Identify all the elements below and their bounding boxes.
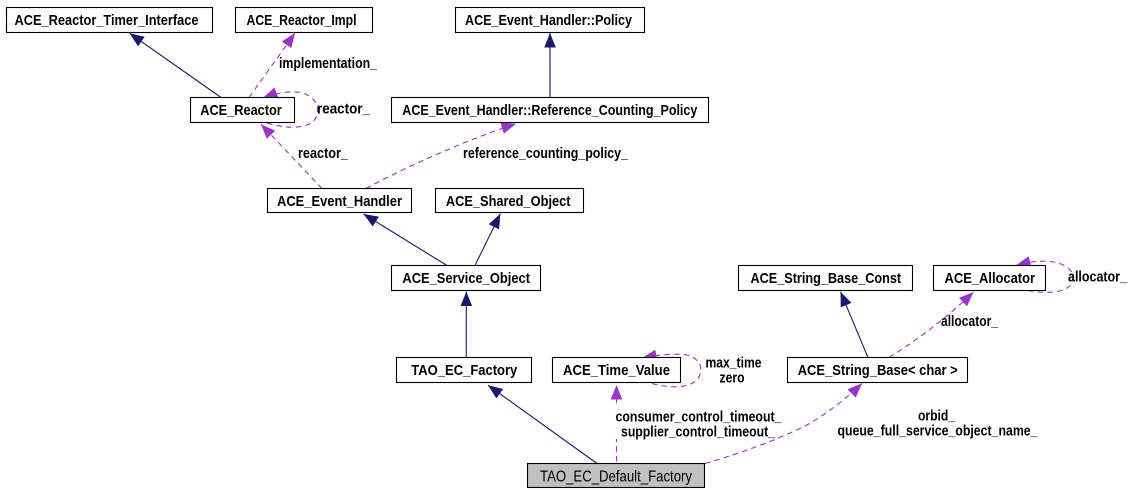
svg-text:ACE_Event_Handler::Reference_C: ACE_Event_Handler::Reference_Counting_Po… xyxy=(402,102,698,119)
node ACE_Event_Handler::Reference_Counting_Policy xyxy=(392,98,709,123)
wire: usage TAO_EC_Default_Factory -> ACE_Time_Value lower part xyxy=(616,439,618,462)
node ACE_Time_Value xyxy=(553,358,681,383)
wire: inheritance ACE_Event_Handler::Reference_Counting_Policy -> ACE_Event_Handler::Policy xyxy=(549,33,551,98)
wire: usage ACE_String_Base&lt;char&gt; -> ACE_Allocator (allocator_) xyxy=(889,292,974,358)
wire: self loop ACE_Reactor (reactor_) xyxy=(263,92,318,127)
node ACE_Reactor xyxy=(191,98,295,123)
node ACE_String_Base_Const xyxy=(739,266,913,291)
svg-text:ACE_Reactor_Timer_Interface: ACE_Reactor_Timer_Interface xyxy=(15,12,199,29)
wire: inheritance TAO_EC_Default_Factory -> TAO_EC_Factory xyxy=(488,385,597,463)
svg-text:supplier_control_timeout_: supplier_control_timeout_ xyxy=(621,424,776,441)
svg-text:zero: zero xyxy=(720,370,745,387)
node ACE_String_Base&lt; char &gt; xyxy=(788,358,968,383)
node ACE_Reactor_Timer_Interface xyxy=(7,8,213,33)
wire: inheritance ACE_Service_Object -> ACE_Shared_Object xyxy=(475,214,500,266)
wire: usage ACE_Reactor -> ACE_Reactor_Impl (implementation_) xyxy=(249,33,295,98)
svg-text:ACE_String_Base_Const: ACE_String_Base_Const xyxy=(750,270,901,287)
svg-text:TAO_EC_Factory: TAO_EC_Factory xyxy=(411,362,518,379)
svg-text:ACE_String_Base< char >: ACE_String_Base< char > xyxy=(798,362,958,379)
svg-text:ACE_Event_Handler::Policy: ACE_Event_Handler::Policy xyxy=(465,12,633,29)
wire: inheritance TAO_EC_Factory -> ACE_Service_Object xyxy=(465,292,467,358)
svg-text:reactor_: reactor_ xyxy=(317,101,371,118)
svg-text:ACE_Allocator: ACE_Allocator xyxy=(945,270,1036,287)
svg-text:ACE_Service_Object: ACE_Service_Object xyxy=(402,270,530,287)
svg-text:allocator_: allocator_ xyxy=(1068,269,1128,286)
svg-text:ACE_Time_Value: ACE_Time_Value xyxy=(563,362,670,379)
wire: inheritance ACE_String_Base&lt;char&gt; -> ACE_String_Base_Const xyxy=(841,292,869,358)
svg-text:reference_counting_policy_: reference_counting_policy_ xyxy=(463,145,629,162)
svg-text:TAO_EC_Default_Factory: TAO_EC_Default_Factory xyxy=(540,469,692,486)
svg-text:ACE_Event_Handler: ACE_Event_Handler xyxy=(277,193,402,210)
node ACE_Shared_Object xyxy=(436,189,584,213)
svg-text:implementation_: implementation_ xyxy=(279,55,378,72)
wire: usage TAO_EC_Default_Factory -> ACE_Time_Value (consumer/supplier timeouts) upper part xyxy=(616,385,618,403)
svg-text:allocator_: allocator_ xyxy=(941,313,999,330)
wire: usage ACE_Event_Handler -> ACE_Reactor (reactor_) xyxy=(261,124,322,188)
wire: inheritance ACE_Reactor -> ACE_Reactor_Timer_Interface xyxy=(130,33,222,97)
node ACE_Event_Handler xyxy=(268,189,412,213)
svg-text:queue_full_service_object_name: queue_full_service_object_name_ xyxy=(838,423,1039,440)
svg-text:ACE_Reactor_Impl: ACE_Reactor_Impl xyxy=(247,12,357,29)
node ACE_Allocator xyxy=(934,266,1046,291)
wire: usage ACE_Event_Handler -> Reference_Counting_Policy (reference_counting_policy_) xyxy=(366,124,516,189)
node ACE_Service_Object xyxy=(392,266,541,291)
svg-text:ACE_Reactor: ACE_Reactor xyxy=(200,102,282,119)
node ACE_Event_Handler::Policy xyxy=(456,8,645,33)
node TAO_EC_Default_Factory (current, grey) xyxy=(528,464,705,488)
wire: inheritance ACE_Service_Object -> ACE_Event_Handler xyxy=(364,214,448,266)
wire: usage TAO_EC_Default_Factory -> ACE_String_Base&lt;char&gt; (orbid_/queue) xyxy=(705,383,862,463)
wire: self loop ACE_Time_Value (max_time zero) xyxy=(642,354,701,387)
svg-text:reactor_: reactor_ xyxy=(298,145,349,162)
svg-text:ACE_Shared_Object: ACE_Shared_Object xyxy=(446,193,571,210)
node TAO_EC_Factory xyxy=(397,358,532,383)
node ACE_Reactor_Impl xyxy=(236,8,373,33)
wire: self loop ACE_Allocator (allocator_) xyxy=(1016,261,1073,292)
